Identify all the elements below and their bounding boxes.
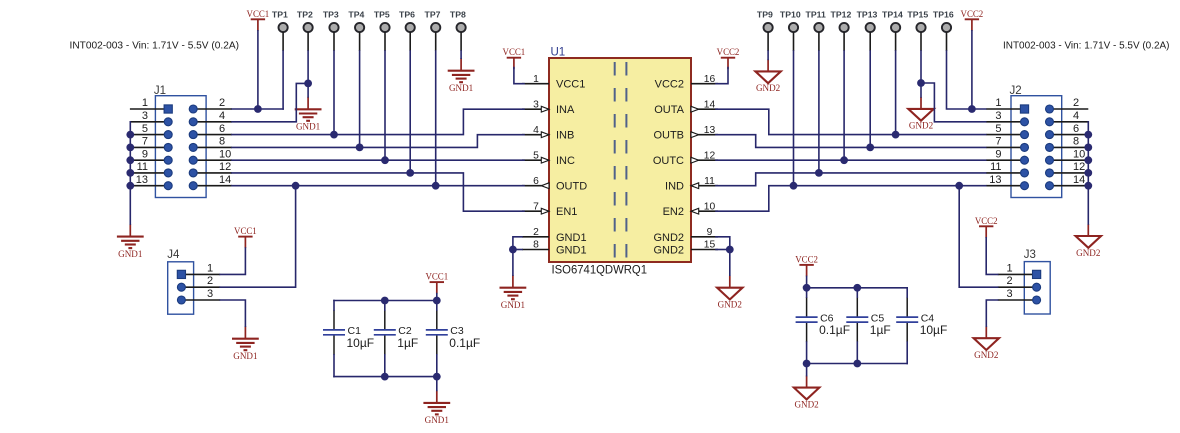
junction TP14 on OUTA net xyxy=(892,131,900,139)
svg-text:1: 1 xyxy=(995,97,1001,109)
connector J4 body xyxy=(168,262,194,314)
test point TP9 xyxy=(757,9,773,51)
ground GND2 (below TP15) xyxy=(908,97,933,131)
svg-text:TP5: TP5 xyxy=(374,9,390,19)
wire TP7 drop xyxy=(435,51,437,186)
test point TP3 xyxy=(323,9,339,51)
svg-text:3: 3 xyxy=(1006,288,1012,300)
junction J1 bus row y=147.4 xyxy=(126,144,134,152)
wire U1 pin 15 stub join xyxy=(716,249,730,251)
wire VCC1 to U1 pin 1 xyxy=(514,68,524,84)
svg-text:TP10: TP10 xyxy=(780,9,801,19)
U1 pin 3 INA xyxy=(522,99,575,116)
J1 pin 5 xyxy=(130,123,172,139)
svg-text:GND2: GND2 xyxy=(756,83,781,93)
capacitor C6 0.1µF xyxy=(796,297,850,342)
test point TP13 xyxy=(857,9,878,51)
test point TP6 xyxy=(399,9,415,51)
J1 pin 9 xyxy=(130,148,172,164)
svg-text:6: 6 xyxy=(533,176,539,187)
svg-text:GND1: GND1 xyxy=(233,351,257,361)
wire TP2 node to GND1 xyxy=(307,83,309,96)
wire TP10 drop xyxy=(793,51,795,186)
svg-text:11: 11 xyxy=(990,161,1001,173)
U1 pin 14 OUTA xyxy=(654,99,718,116)
wire C4 bottom column xyxy=(906,342,908,363)
junction J1 bus row y=160.2 xyxy=(126,156,134,164)
svg-text:0.1µF: 0.1µF xyxy=(819,323,850,337)
svg-text:2: 2 xyxy=(533,227,539,238)
svg-text:ISO6741QDWRQ1: ISO6741QDWRQ1 xyxy=(552,263,648,277)
wire net OUTC: U1 pin 12 to J2 pin 9 xyxy=(716,159,986,161)
svg-text:12: 12 xyxy=(1073,161,1085,173)
junction J2 bus row y=147.4 xyxy=(1084,144,1092,152)
junction J2 bus row y=160.2 xyxy=(1084,156,1092,164)
J2 pin 5 xyxy=(986,123,1028,139)
U1 pin 10 EN2 xyxy=(663,201,718,218)
svg-text:GND2: GND2 xyxy=(909,121,934,131)
test point TP11 xyxy=(806,9,826,51)
svg-text:16: 16 xyxy=(704,74,716,85)
svg-text:J3: J3 xyxy=(1024,249,1036,261)
U1 pin 6 OUTD xyxy=(522,176,587,193)
J3 pin 2 xyxy=(998,275,1041,291)
wire J4 pin 3 to GND1 xyxy=(220,300,245,326)
svg-text:1: 1 xyxy=(142,97,148,109)
capacitor C3 0.1µF xyxy=(426,310,480,355)
junction J3 pin 2 on EN2 net xyxy=(955,182,963,190)
U1 pin 5 INC xyxy=(522,150,575,167)
power symbol VCC1 (above C3) xyxy=(425,272,448,294)
test point TP4 xyxy=(348,9,364,51)
svg-text:10: 10 xyxy=(1073,148,1085,160)
svg-text:15: 15 xyxy=(704,240,716,251)
svg-text:GND2: GND2 xyxy=(974,350,999,360)
J3 pin 3 xyxy=(998,288,1041,304)
J1 pin 14 xyxy=(189,174,232,190)
svg-text:GND2: GND2 xyxy=(1076,248,1101,258)
wire C5 top column xyxy=(856,288,858,297)
U1 pin 12 OUTC xyxy=(653,150,718,167)
wire C3 top column xyxy=(436,294,438,310)
power symbol VCC1 (top left near TP1) xyxy=(247,9,270,31)
J2 pin 12 xyxy=(1046,161,1089,177)
svg-text:GND2: GND2 xyxy=(653,245,684,257)
junction TP2 / GND1 node xyxy=(304,80,312,88)
svg-text:OUTB: OUTB xyxy=(653,130,684,142)
wire right cap bank top rail xyxy=(807,287,908,289)
svg-text:INT002-003 - Vin: 1.71V - 5.5V: INT002-003 - Vin: 1.71V - 5.5V (0.2A) xyxy=(70,41,240,52)
junction C3 top rail xyxy=(433,297,441,305)
wire J3 pin 3 to GND2 xyxy=(986,300,997,326)
svg-text:EN2: EN2 xyxy=(663,206,684,218)
wire J3 pin 1 to VCC2 xyxy=(986,238,998,275)
svg-text:VCC1: VCC1 xyxy=(425,272,448,282)
svg-text:VCC1: VCC1 xyxy=(503,47,526,57)
svg-text:5: 5 xyxy=(142,123,148,135)
junction VCC1 / J1 pin 2 net xyxy=(254,105,262,113)
junction TP5 on INC net xyxy=(381,156,389,164)
svg-text:TP1: TP1 xyxy=(272,9,288,19)
svg-text:8: 8 xyxy=(1073,136,1079,148)
svg-text:4: 4 xyxy=(1073,110,1079,122)
wire C6 bottom column xyxy=(806,342,808,376)
U1 pin 4 INB xyxy=(522,125,574,142)
svg-text:7: 7 xyxy=(995,136,1001,148)
junction C2 bottom rail xyxy=(381,373,389,381)
wire net EN2: U1 pin 10 to J2 pin 13 xyxy=(716,186,986,212)
svg-text:GND1: GND1 xyxy=(449,83,473,93)
svg-text:OUTD: OUTD xyxy=(556,181,587,193)
svg-text:GND1: GND1 xyxy=(556,245,587,257)
svg-text:IND: IND xyxy=(665,181,684,193)
ground GND2 (below U1 pins 9/15) xyxy=(717,276,742,310)
wire TP2 drop xyxy=(307,51,309,83)
wire TP6 drop xyxy=(409,51,411,173)
J1 pin 3 xyxy=(130,110,172,126)
svg-text:TP6: TP6 xyxy=(399,9,415,19)
junction J2 bus row y=134.6 xyxy=(1084,131,1092,139)
J2 pin 4 xyxy=(1046,110,1089,126)
svg-text:VCC1: VCC1 xyxy=(556,79,585,91)
J3 pin 1 xyxy=(998,262,1041,278)
svg-text:J1: J1 xyxy=(154,85,166,97)
junction C6 bottom rail xyxy=(803,360,811,368)
svg-text:10µF: 10µF xyxy=(920,323,948,337)
connector J3 body xyxy=(1024,262,1050,314)
svg-text:INA: INA xyxy=(556,104,575,116)
svg-text:OUTC: OUTC xyxy=(653,155,684,167)
junction TP11 on IND net xyxy=(815,169,823,177)
wire C2 bottom column xyxy=(384,355,386,377)
junction J2 bus row y=172.9 xyxy=(1084,169,1092,177)
junction TP4 on INB net xyxy=(356,144,364,152)
test point TP1 xyxy=(272,9,288,51)
J2 pin 7 xyxy=(986,136,1028,152)
svg-text:7: 7 xyxy=(142,136,148,148)
J1 pin 1 xyxy=(130,97,172,113)
wire TP1 drop xyxy=(282,51,284,109)
svg-text:VCC2: VCC2 xyxy=(961,9,984,19)
wire net INA: J1 pin 6 to U1 pin 3 xyxy=(232,109,524,134)
svg-text:9: 9 xyxy=(142,148,148,160)
svg-text:TP8: TP8 xyxy=(450,9,466,19)
svg-text:5: 5 xyxy=(533,150,539,161)
svg-text:2: 2 xyxy=(207,275,213,287)
ground GND1 (below J4 pin 3) xyxy=(232,326,259,361)
junction TP6 on EN1 net xyxy=(406,169,414,177)
wire TP15 drop xyxy=(920,51,922,83)
ground GND1 (below U1 pins 2/8) xyxy=(500,275,527,310)
J1 pin 10 xyxy=(189,148,232,164)
svg-text:11: 11 xyxy=(704,176,715,187)
J1 pin 2 xyxy=(189,97,232,113)
svg-text:3: 3 xyxy=(533,99,539,110)
wire J3 pin 2 to EN2 net xyxy=(959,186,998,288)
svg-text:14: 14 xyxy=(1073,174,1085,186)
svg-text:J2: J2 xyxy=(1010,85,1022,97)
svg-text:TP13: TP13 xyxy=(857,9,878,19)
J2 pin 9 xyxy=(986,148,1028,164)
test point TP7 xyxy=(425,9,441,51)
wire net VCC1/TP1 to J1 pin 2 xyxy=(232,108,283,110)
U1 isolation barrier dashed line right xyxy=(625,62,627,258)
svg-text:TP15: TP15 xyxy=(907,9,928,19)
wire TP8 to GND1 xyxy=(460,51,462,58)
svg-text:GND2: GND2 xyxy=(718,300,743,310)
svg-text:INC: INC xyxy=(556,155,575,167)
ground GND2 (below C6) xyxy=(794,376,819,410)
J4 pin 3 xyxy=(177,288,220,304)
junction TP13 on OUTB net xyxy=(866,144,874,152)
wire TP15 node to GND2 xyxy=(920,83,922,97)
power symbol VCC2 (at U1 pin 16) xyxy=(717,47,740,69)
svg-text:GND1: GND1 xyxy=(296,122,320,132)
svg-text:VCC2: VCC2 xyxy=(717,47,740,57)
svg-text:TP4: TP4 xyxy=(348,9,364,19)
wire left cap bank top rail xyxy=(334,300,437,302)
svg-text:14: 14 xyxy=(704,99,716,110)
svg-text:9: 9 xyxy=(995,148,1001,160)
wire C1 top column xyxy=(333,301,335,311)
power symbol VCC2 (above J3 pin 1) xyxy=(975,216,998,238)
wire TP12 drop xyxy=(843,51,845,160)
svg-text:TP3: TP3 xyxy=(323,9,339,19)
wire C6 top column xyxy=(806,276,808,297)
U1 pin 8 GND1 xyxy=(522,240,587,257)
wire TP13 drop xyxy=(869,51,871,147)
svg-text:7: 7 xyxy=(533,201,539,212)
svg-text:TP7: TP7 xyxy=(425,9,441,19)
J2 pin 11 xyxy=(986,161,1028,177)
svg-text:4: 4 xyxy=(533,125,539,136)
svg-text:12: 12 xyxy=(704,150,716,161)
test point TP5 xyxy=(374,9,390,51)
wire U1 pins 2/8 to GND1 xyxy=(513,237,522,275)
U1 pin 9 GND2 xyxy=(653,227,718,244)
power symbol VCC1 (above J4 pin 1) xyxy=(234,226,257,248)
svg-text:3: 3 xyxy=(207,288,213,300)
svg-text:TP9: TP9 xyxy=(757,9,773,19)
power symbol VCC2 (top right near TP16) xyxy=(961,9,984,31)
J2 pin 14 xyxy=(1046,174,1089,190)
capacitor C2 1µF xyxy=(374,310,418,355)
wire C3 bottom column xyxy=(436,355,438,391)
svg-text:6: 6 xyxy=(219,123,225,135)
J4 pin 1 xyxy=(177,262,220,278)
J1 pin 12 xyxy=(189,161,232,177)
svg-text:9: 9 xyxy=(707,227,713,238)
wire VCC2 stem top right xyxy=(971,31,973,109)
ground GND1 (below TP8) xyxy=(448,58,475,93)
wire J4 pin 1 to VCC1 xyxy=(220,248,245,274)
svg-text:GND2: GND2 xyxy=(653,232,684,244)
svg-text:VCC2: VCC2 xyxy=(795,254,818,264)
svg-text:TP11: TP11 xyxy=(806,9,826,19)
svg-text:VCC2: VCC2 xyxy=(975,216,998,226)
J1 pin 13 xyxy=(130,174,172,190)
wire net OUTA: U1 pin 14 to J2 pin 5 xyxy=(716,109,986,134)
junction C3 bottom rail xyxy=(433,373,441,381)
capacitor C4 10µF xyxy=(896,297,947,342)
J2 pin 6 xyxy=(1046,123,1089,139)
wire right cap bank bottom rail xyxy=(807,363,908,365)
svg-text:0.1µF: 0.1µF xyxy=(449,336,480,350)
svg-text:VCC1: VCC1 xyxy=(247,9,270,19)
svg-text:10µF: 10µF xyxy=(347,336,375,350)
junction J1 bus row y=134.6 xyxy=(126,131,134,139)
wire VCC2 to U1 pin 16 xyxy=(716,68,728,84)
svg-text:GND1: GND1 xyxy=(556,232,587,244)
svg-text:VCC1: VCC1 xyxy=(234,226,257,236)
junction TP12 on OUTC net xyxy=(840,156,848,164)
svg-text:VCC2: VCC2 xyxy=(655,79,684,91)
svg-text:4: 4 xyxy=(219,110,225,122)
U1 pin 1 VCC1 xyxy=(522,74,585,91)
U1 isolation barrier dashed line left xyxy=(614,62,616,258)
test point TP2 xyxy=(297,9,313,51)
svg-text:INT002-003 - Vin: 1.71V - 5.5V: INT002-003 - Vin: 1.71V - 5.5V (0.2A) xyxy=(1003,41,1170,52)
power symbol VCC1 (at U1 pin 1) xyxy=(503,47,526,69)
connector J2 body xyxy=(1011,96,1062,198)
svg-text:1µF: 1µF xyxy=(397,336,418,350)
svg-text:INB: INB xyxy=(556,130,574,142)
junction U1 GND2 node xyxy=(726,246,734,254)
wire net OUTD: J1 pin 14 to U1 pin 6 xyxy=(232,185,524,187)
svg-text:14: 14 xyxy=(219,174,231,186)
J2 pin 2 xyxy=(1046,97,1089,113)
svg-text:TP2: TP2 xyxy=(297,9,313,19)
svg-text:GND1: GND1 xyxy=(501,300,525,310)
capacitor C1 10µF xyxy=(323,310,374,355)
svg-text:1: 1 xyxy=(207,262,213,274)
svg-text:5: 5 xyxy=(995,123,1001,135)
svg-text:GND1: GND1 xyxy=(425,415,449,425)
ground GND2 (below J2 bus) xyxy=(1076,224,1101,258)
junction J4 pin 2 on OUTD net xyxy=(292,182,300,190)
wire net INB: J1 pin 8 to U1 pin 4 xyxy=(232,135,524,148)
U1 pin 11 IND xyxy=(665,176,718,193)
svg-text:10: 10 xyxy=(219,148,231,160)
junction C5 top rail xyxy=(853,284,861,292)
svg-text:1: 1 xyxy=(1006,262,1012,274)
svg-text:3: 3 xyxy=(995,110,1001,122)
wire net EN1: J1 pin 12 to U1 pin 7 xyxy=(232,173,524,211)
wire net OUTB: U1 pin 13 to J2 pin 7 xyxy=(716,135,986,148)
svg-text:3: 3 xyxy=(142,110,148,122)
svg-text:13: 13 xyxy=(989,174,1001,186)
wire TP14 drop xyxy=(895,51,897,135)
wire VCC1 stem top left xyxy=(257,31,259,109)
test point TP10 xyxy=(780,9,801,51)
J2 pin 3 xyxy=(986,110,1028,126)
test point TP16 xyxy=(933,9,954,51)
junction TP3 on INA net xyxy=(330,131,338,139)
J1 pin 11 xyxy=(130,161,172,177)
wire net J1 pin 4 to TP2/GND1 xyxy=(232,83,308,121)
svg-text:TP14: TP14 xyxy=(882,9,903,19)
J2 pin 8 xyxy=(1046,136,1089,152)
wire U1 pins 9/15 to GND2 xyxy=(716,237,730,275)
op-amp U1 body (ISO6741QDWRQ1) xyxy=(549,58,691,262)
svg-text:8: 8 xyxy=(533,240,539,251)
J1 pin 7 xyxy=(130,136,172,152)
junction VCC2 / J2 pin 1 net xyxy=(968,105,976,113)
test point TP14 xyxy=(882,9,903,51)
svg-text:6: 6 xyxy=(1073,123,1079,135)
wire J2 ground bus xyxy=(1087,122,1089,224)
connector J1 body xyxy=(155,96,206,198)
J1 pin 8 xyxy=(189,136,232,152)
svg-text:U1: U1 xyxy=(551,47,566,59)
svg-text:1: 1 xyxy=(533,74,539,85)
wire TP3 drop xyxy=(333,51,335,135)
wire TP15 node to J2 pin 3 xyxy=(921,83,986,122)
ground GND1 (below J1 bus) xyxy=(117,224,144,259)
svg-text:11: 11 xyxy=(137,161,148,173)
J4 pin 2 xyxy=(177,275,220,291)
J1 pin 4 xyxy=(189,110,232,126)
junction TP7 on OUTD net xyxy=(432,182,440,190)
J1 pin 6 xyxy=(189,123,232,139)
capacitor C5 1µF xyxy=(846,297,890,342)
svg-text:13: 13 xyxy=(136,174,148,186)
junction J2 bus row y=185.7 xyxy=(1084,182,1092,190)
J2 pin 1 xyxy=(986,97,1028,113)
ground GND2 (below J3 pin 3) xyxy=(974,326,999,360)
svg-text:2: 2 xyxy=(1073,97,1079,109)
wire TP9 to GND2 xyxy=(767,51,769,59)
svg-text:EN1: EN1 xyxy=(556,206,577,218)
test point TP8 xyxy=(450,9,466,51)
power symbol VCC2 (above C6) xyxy=(795,254,818,276)
svg-text:GND2: GND2 xyxy=(794,399,819,409)
svg-text:J4: J4 xyxy=(167,249,180,261)
svg-text:TP12: TP12 xyxy=(831,9,852,19)
wire TP11 drop xyxy=(818,51,820,173)
wire C5 bottom column xyxy=(856,342,858,363)
svg-text:10: 10 xyxy=(704,201,716,212)
wire U1 pin 8 stub join xyxy=(513,249,522,251)
junction TP10 on EN2 net xyxy=(790,182,798,190)
svg-text:12: 12 xyxy=(219,161,231,173)
wire left cap bank bottom rail xyxy=(334,376,437,378)
junction C2 top rail xyxy=(381,297,389,305)
U1 pin 15 GND2 xyxy=(653,240,718,257)
junction TP15 / GND2 node xyxy=(917,79,925,87)
wire C4 top column xyxy=(906,288,908,297)
wire net IND: U1 pin 11 to J2 pin 11 xyxy=(716,173,986,186)
svg-text:8: 8 xyxy=(219,136,225,148)
junction J1 bus row y=185.7 xyxy=(126,182,134,190)
junction C5 bottom rail xyxy=(853,360,861,368)
U1 pin 16 VCC2 xyxy=(655,74,718,91)
U1 pin 7 EN1 xyxy=(522,201,577,218)
wire C2 top column xyxy=(384,301,386,311)
test point TP15 xyxy=(907,9,928,51)
ground GND1 (below TP2) xyxy=(295,97,322,132)
svg-text:GND1: GND1 xyxy=(118,249,142,259)
svg-text:OUTA: OUTA xyxy=(654,104,684,116)
svg-text:13: 13 xyxy=(704,125,716,136)
wire TP4 drop xyxy=(359,51,361,147)
junction C6 top rail xyxy=(803,284,811,292)
junction U1 GND1 node xyxy=(509,246,517,254)
test point TP12 xyxy=(831,9,852,51)
U1 pin 13 OUTB xyxy=(653,125,718,142)
wire C1 bottom column xyxy=(333,355,335,377)
svg-text:2: 2 xyxy=(219,97,225,109)
